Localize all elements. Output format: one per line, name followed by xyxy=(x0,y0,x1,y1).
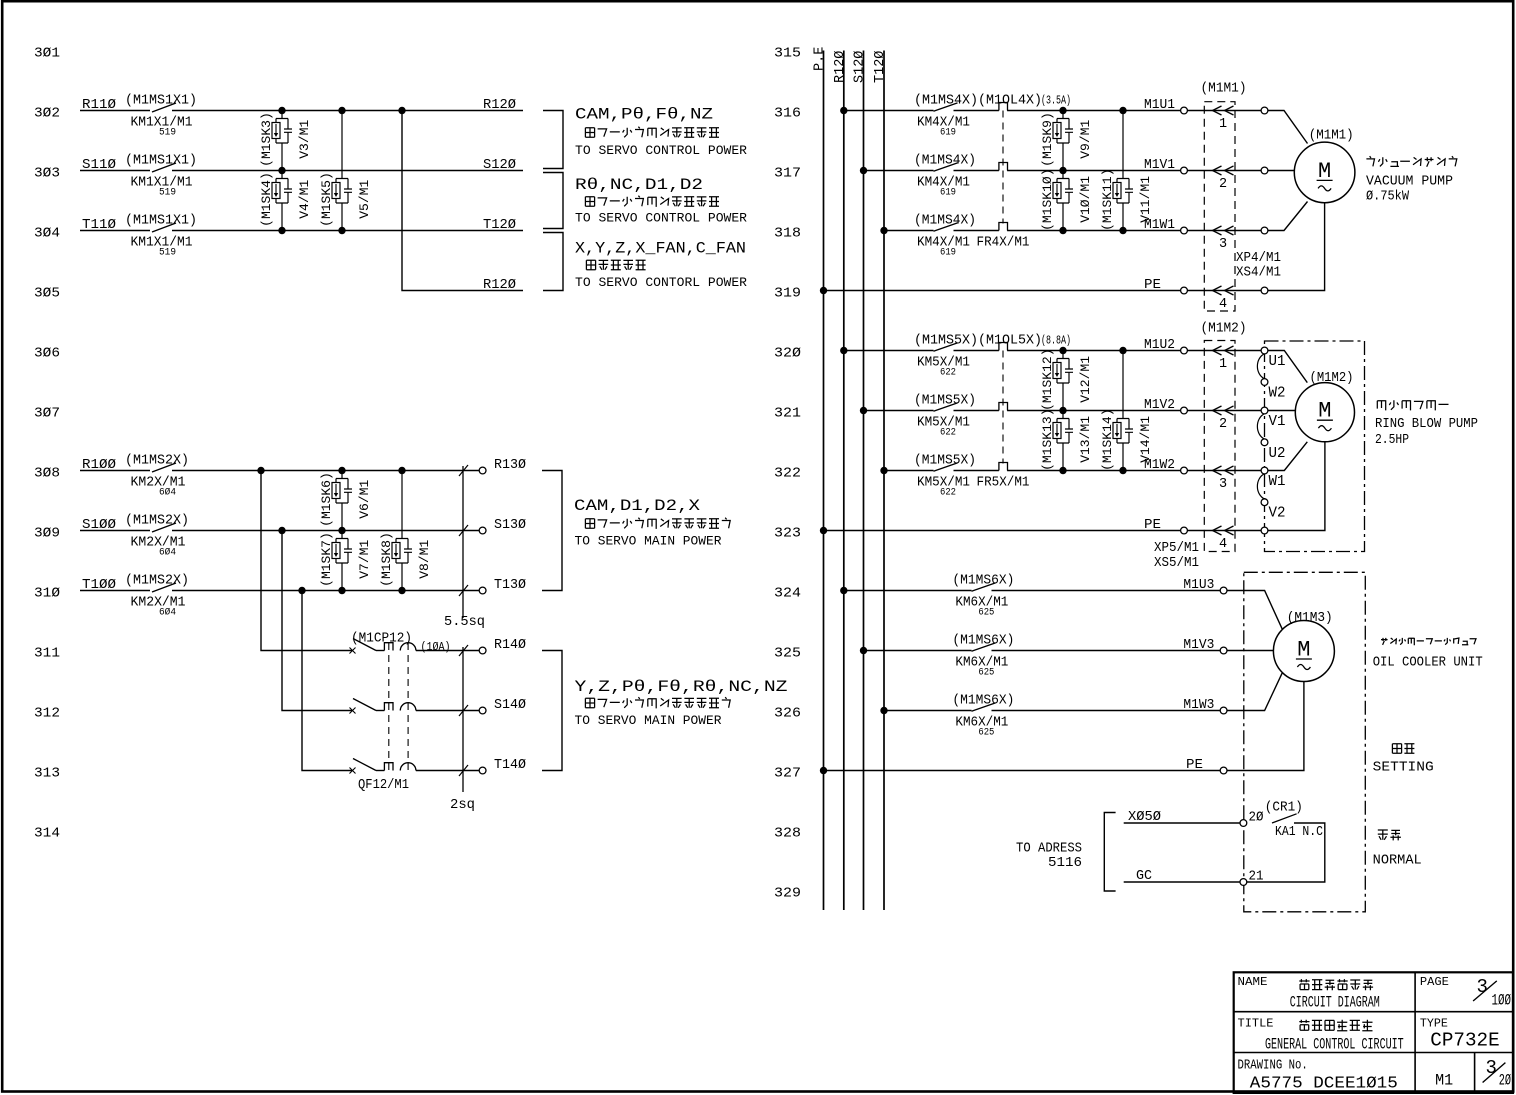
wire X050 row 328 xyxy=(1124,822,1241,824)
svg-text:V5/M1: V5/M1 xyxy=(357,180,372,219)
bus tap dot row 320 xyxy=(840,347,847,354)
svg-text:KM2X/M1: KM2X/M1 xyxy=(131,535,186,550)
svg-text:KM2X/M1: KM2X/M1 xyxy=(131,595,186,610)
surge killer V4/M1 (M1SK4) xyxy=(276,171,288,204)
svg-text:(1ØA): (1ØA) xyxy=(421,640,451,654)
junction dots row 308 xyxy=(257,467,264,474)
contact KM2X/M1 (M1MS2X) row 310 xyxy=(152,583,176,592)
wire row 316 contact to overload xyxy=(954,110,999,112)
cable mark 5.5sq crossing rows 308-310 xyxy=(462,466,464,618)
contact KM5X/M1 (M1MS5X) row 321 xyxy=(934,403,958,411)
svg-text:Y,Z,Pθ,Fθ,Rθ,NC,NZ: Y,Z,Pθ,Fθ,Rθ,NC,NZ xyxy=(575,678,788,696)
svg-text:A5775 DCEE1Ø15: A5775 DCEE1Ø15 xyxy=(1250,1073,1398,1092)
wire row 320 overload to terminal xyxy=(1007,350,1184,352)
svg-text:FR4X/M1: FR4X/M1 xyxy=(977,236,1030,251)
terminal circle M1U1 row 316 xyxy=(1181,107,1188,114)
wire row 324 from bus xyxy=(844,590,972,592)
svg-text:622: 622 xyxy=(940,367,956,379)
bus tap dot row 325 xyxy=(860,647,867,654)
svg-text:1ØØ: 1ØØ xyxy=(1492,992,1512,1010)
wire row 317 from bus xyxy=(864,170,934,172)
connector XP5 pin 2 chevrons xyxy=(1187,410,1261,412)
svg-text:GC: GC xyxy=(1136,869,1152,884)
svg-text:CAM,Pθ,Fθ,NZ: CAM,Pθ,Fθ,NZ xyxy=(575,106,713,124)
jp text axis control power xyxy=(586,260,645,270)
svg-text:(M1SK4): (M1SK4) xyxy=(259,172,274,227)
jp text oil cooler unit xyxy=(1381,638,1476,645)
svg-text:V6/M1: V6/M1 xyxy=(357,480,372,519)
circuit breaker QF12/M1 pole 1 row 311 xyxy=(350,648,356,654)
svg-text:5.5sq: 5.5sq xyxy=(444,615,485,630)
svg-text:625: 625 xyxy=(978,667,994,679)
connector XP5/XS5 dashed box xyxy=(1204,341,1235,552)
svg-text:311: 311 xyxy=(34,647,60,662)
contact KM4X/M1 (M1MS4X) row 318 xyxy=(934,223,958,231)
wire S1ØØ row 309 left segment xyxy=(80,530,150,532)
svg-text:6Ø4: 6Ø4 xyxy=(159,607,176,619)
svg-text:2sq: 2sq xyxy=(450,798,475,813)
svg-text:322: 322 xyxy=(774,467,801,482)
svg-text:(M1MS2X): (M1MS2X) xyxy=(125,454,189,469)
svg-text:W2: W2 xyxy=(1269,386,1286,402)
bus line R12Ø xyxy=(843,51,845,911)
svg-text:XØ5Ø: XØ5Ø xyxy=(1128,810,1161,825)
svg-text:R12Ø: R12Ø xyxy=(483,278,516,293)
svg-text:317: 317 xyxy=(774,167,801,182)
svg-text:3: 3 xyxy=(1219,477,1227,492)
terminal S14Ø xyxy=(479,707,486,714)
motor M1M2 ring blow pump xyxy=(1295,383,1354,442)
wire tap row302 to row305 (R120 feed) xyxy=(402,111,523,291)
terminal 20 xyxy=(1240,820,1247,827)
svg-text:V11/M1: V11/M1 xyxy=(1138,176,1153,223)
overload element (M1OL5X) row 321 xyxy=(999,403,1008,411)
svg-text:TITLE: TITLE xyxy=(1238,1017,1274,1031)
surge killer V14/M1 (M1SK14) xyxy=(1122,351,1124,411)
wire row 303 right segment xyxy=(172,170,523,172)
bus line P.E xyxy=(823,51,825,911)
svg-text:S1ØØ: S1ØØ xyxy=(82,518,116,533)
svg-text:TO SERVO MAIN POWER: TO SERVO MAIN POWER xyxy=(575,534,722,549)
bracket rows 311-313 xyxy=(542,651,562,771)
svg-text:(M1SK8): (M1SK8) xyxy=(379,532,394,587)
connector XP5 pin 1 chevrons xyxy=(1187,350,1261,352)
contact KM6X/M1 (M1MS6X) row 324 xyxy=(972,583,996,591)
svg-text:QF12/M1: QF12/M1 xyxy=(358,778,409,793)
surge killer V6/M1 (M1SK6) xyxy=(336,471,348,504)
wire KA1 to terminal 21 loop xyxy=(1247,823,1325,882)
svg-text:315: 315 xyxy=(774,47,801,62)
svg-text:2.5HP: 2.5HP xyxy=(1375,433,1409,448)
wire row 309 to terminal xyxy=(172,530,479,532)
svg-text:SETTING: SETTING xyxy=(1373,761,1434,776)
breaker linkage dashed lines xyxy=(388,643,390,771)
svg-text:TO SERVO MAIN POWER: TO SERVO MAIN POWER xyxy=(575,713,722,728)
svg-text:PE: PE xyxy=(1144,278,1161,293)
svg-text:U2: U2 xyxy=(1269,446,1286,462)
terminal R13Ø xyxy=(479,467,486,474)
svg-text:328: 328 xyxy=(774,827,801,842)
svg-text:R11Ø: R11Ø xyxy=(82,98,116,113)
overload element (M1OL5X) row 320 xyxy=(999,343,1008,351)
svg-text:(M1SK3): (M1SK3) xyxy=(259,112,274,167)
wire R1ØØ row 308 left segment xyxy=(80,470,150,472)
svg-text:XP5/M1: XP5/M1 xyxy=(1154,541,1199,556)
jp text servo amp control power 2 xyxy=(585,196,719,207)
junction dots row 310 xyxy=(298,587,305,594)
wire row 304 right segment xyxy=(172,230,523,232)
svg-text:S13Ø: S13Ø xyxy=(494,518,526,533)
motor M1M2 PE terminal xyxy=(1261,527,1268,534)
contact KM5X/M1 (M1MS5X) row 322 xyxy=(934,463,958,471)
svg-text:3Ø1: 3Ø1 xyxy=(34,47,60,62)
jp text servo amp main power 2 xyxy=(585,697,730,708)
svg-text:U1: U1 xyxy=(1269,354,1286,370)
terminal circle M1U3 row 324 xyxy=(1220,587,1227,594)
svg-text:TO SERVO CONTROL POWER: TO SERVO CONTROL POWER xyxy=(575,211,747,226)
svg-text:(M1CP12): (M1CP12) xyxy=(351,632,412,647)
junction dot row 303 xyxy=(278,167,285,174)
svg-text:519: 519 xyxy=(159,247,176,259)
svg-text:622: 622 xyxy=(940,487,956,499)
svg-text:W1: W1 xyxy=(1269,474,1286,490)
jp text servo amp main power 1 xyxy=(585,518,730,529)
PE wire row 323 xyxy=(820,527,827,534)
wire row 322 contact to overload xyxy=(954,470,999,472)
contact KM1X1/M1 (M1MS1X1) row 303 xyxy=(152,163,176,172)
svg-text:(M1MS2X): (M1MS2X) xyxy=(125,574,189,589)
motor M1M2 enclosure dash-dot box xyxy=(1265,341,1365,552)
svg-text:325: 325 xyxy=(774,647,801,662)
svg-text:RING BLOW PUMP: RING BLOW PUMP xyxy=(1375,417,1478,432)
connector pin 2 chevrons xyxy=(1187,170,1261,172)
connector pin 2 right terminal xyxy=(1261,167,1268,174)
svg-text:319: 319 xyxy=(774,287,801,302)
svg-text:2: 2 xyxy=(1219,417,1227,432)
svg-text:(M1SK6): (M1SK6) xyxy=(319,472,334,527)
wire row 322 overload to terminal xyxy=(1007,470,1184,472)
overload linkage dashed line (M1OL4X) xyxy=(1002,111,1004,224)
junction dots row 309 xyxy=(278,527,285,534)
bus tap dot row 326 xyxy=(880,707,887,714)
surge killer V10/M1 (M1SK10) xyxy=(1057,171,1069,204)
motor M1M3 oil cooler xyxy=(1273,621,1334,682)
svg-text:(M1SK12): (M1SK12) xyxy=(1040,348,1055,410)
wire GC row 329 xyxy=(1124,881,1241,883)
overload element (M1OL4X) row 316 xyxy=(999,103,1008,111)
title block frame xyxy=(1234,972,1513,1093)
wire row 326 to terminal xyxy=(992,710,1224,712)
svg-text:314: 314 xyxy=(34,827,60,842)
svg-text:T13Ø: T13Ø xyxy=(494,578,526,593)
wire row 322 from bus xyxy=(884,470,934,472)
svg-text:V9/M1: V9/M1 xyxy=(1078,120,1093,159)
junction dots rows 316-318 surge killers xyxy=(1059,107,1066,114)
bus tap dot row 322 xyxy=(880,467,887,474)
terminal 21 xyxy=(1240,879,1247,886)
overload element (M1OL5X) row 322 xyxy=(999,463,1008,471)
bracket rows 308-310 xyxy=(542,471,562,591)
wire row 324 to terminal xyxy=(992,590,1224,592)
wire row 317 overload to terminal xyxy=(1007,170,1184,172)
svg-text:M1V2: M1V2 xyxy=(1144,398,1175,413)
svg-text:TO SERVO CONTROL POWER: TO SERVO CONTROL POWER xyxy=(575,143,747,158)
svg-text:S14Ø: S14Ø xyxy=(494,698,526,713)
motor M1M2 terminal U2 xyxy=(1261,439,1268,446)
svg-text:(M1MS2X): (M1MS2X) xyxy=(125,514,189,529)
svg-text:TO ADRESS: TO ADRESS xyxy=(1016,842,1082,857)
jp text normal xyxy=(1378,830,1401,840)
bus tap dot row 321 xyxy=(860,407,867,414)
svg-text:T14Ø: T14Ø xyxy=(494,758,526,773)
svg-text:1: 1 xyxy=(1219,357,1227,372)
svg-text:31Ø: 31Ø xyxy=(34,587,60,602)
wire row 321 overload to terminal xyxy=(1007,410,1184,412)
svg-text:V12/M1: V12/M1 xyxy=(1078,356,1093,403)
svg-text:32Ø: 32Ø xyxy=(774,347,801,362)
connector XP5 pin 4 chevrons xyxy=(1187,530,1261,532)
terminal circle M1W2 row 322 xyxy=(1181,467,1188,474)
svg-text:M1: M1 xyxy=(1435,1071,1453,1089)
svg-text:VACUUM PUMP: VACUUM PUMP xyxy=(1366,175,1453,190)
svg-text:3Ø3: 3Ø3 xyxy=(34,167,60,182)
surge killer V12/M1 (M1SK12) xyxy=(1057,351,1069,384)
svg-text:318: 318 xyxy=(774,227,801,242)
svg-text:V13/M1: V13/M1 xyxy=(1078,416,1093,463)
bus tap dot row 316 xyxy=(840,107,847,114)
circuit breaker QF12/M1 pole 2 row 312 xyxy=(350,708,356,714)
svg-text:V14/M1: V14/M1 xyxy=(1138,416,1153,463)
svg-text:2: 2 xyxy=(1219,177,1227,192)
svg-text:4: 4 xyxy=(1219,297,1227,312)
terminal T14Ø xyxy=(479,767,486,774)
jp text ring blow xyxy=(1377,400,1448,410)
svg-text:S12Ø: S12Ø xyxy=(483,158,516,173)
oil cooler unit enclosure dash-dot box xyxy=(1244,572,1366,912)
svg-text:KA1 N.C: KA1 N.C xyxy=(1275,825,1323,840)
terminal circle M1W1 row 318 xyxy=(1181,227,1188,234)
svg-text:3Ø9: 3Ø9 xyxy=(34,527,60,542)
connector pin 1 right terminal xyxy=(1261,107,1268,114)
svg-text:KM2X/M1: KM2X/M1 xyxy=(131,475,186,490)
wire S11Ø row 303 left segment xyxy=(80,170,150,172)
svg-text:V4/M1: V4/M1 xyxy=(297,180,312,219)
terminal R14Ø xyxy=(479,647,486,654)
terminal circle PE row 319 xyxy=(1181,287,1188,294)
svg-text:(M1MS4X): (M1MS4X) xyxy=(914,214,976,229)
svg-text:(M1MS6X): (M1MS6X) xyxy=(952,574,1014,589)
svg-text:(M1M3): (M1M3) xyxy=(1287,611,1333,626)
svg-text:3Ø8: 3Ø8 xyxy=(34,467,60,482)
junction dots rows 320-322 surge killers xyxy=(1059,347,1066,354)
svg-text:R1ØØ: R1ØØ xyxy=(82,458,116,473)
svg-text:327: 327 xyxy=(774,767,801,782)
motor M1M2 wires to motor xyxy=(1268,351,1308,383)
svg-text:625: 625 xyxy=(978,727,994,739)
svg-text:M1V3: M1V3 xyxy=(1183,638,1214,653)
svg-text:324: 324 xyxy=(774,587,801,602)
svg-text:(M1SK7): (M1SK7) xyxy=(319,532,334,587)
svg-text:(M1MS1X1): (M1MS1X1) xyxy=(125,94,197,109)
wire row 318 overload to terminal xyxy=(1007,230,1184,232)
svg-text:V3/M1: V3/M1 xyxy=(297,120,312,159)
contact KM2X/M1 (M1MS2X) row 309 xyxy=(152,523,176,532)
svg-text:(M1SK11): (M1SK11) xyxy=(1100,168,1115,230)
svg-text:519: 519 xyxy=(159,127,176,139)
svg-text:PE: PE xyxy=(1144,518,1161,533)
svg-text:(M1SK1Ø): (M1SK1Ø) xyxy=(1040,168,1055,230)
svg-text:M1U3: M1U3 xyxy=(1183,578,1214,593)
contact KM4X/M1 (M1MS4X) row 317 xyxy=(934,163,958,171)
terminal circle M1U2 row 320 xyxy=(1181,347,1188,354)
svg-text:P.E: P.E xyxy=(813,47,828,71)
svg-text:625: 625 xyxy=(978,607,994,619)
svg-text:(CR1): (CR1) xyxy=(1265,801,1303,816)
junction dots row 302 xyxy=(278,107,285,114)
svg-text:R13Ø: R13Ø xyxy=(494,458,526,473)
jp text setting xyxy=(1392,744,1414,754)
connector XP4/XS4 dashed box xyxy=(1204,102,1235,311)
svg-text:3Ø5: 3Ø5 xyxy=(34,287,60,302)
connector XP5 pin 3 chevrons xyxy=(1187,470,1261,472)
svg-text:(M1M1): (M1M1) xyxy=(1309,129,1354,144)
svg-text:R12Ø: R12Ø xyxy=(833,51,848,83)
bus tap dot row 318 xyxy=(880,227,887,234)
terminal circle M1W3 row 326 xyxy=(1220,707,1227,714)
svg-text:619: 619 xyxy=(940,127,956,139)
jp text vacuum pump xyxy=(1366,156,1456,167)
svg-text:PE: PE xyxy=(1186,758,1203,773)
terminal circle M1V2 row 321 xyxy=(1181,407,1188,414)
svg-text:6Ø4: 6Ø4 xyxy=(159,487,176,499)
contact KM1X1/M1 (M1MS1X1) row 304 xyxy=(152,223,176,232)
motor M1M2 terminal U1 xyxy=(1261,347,1268,354)
surge killer V9/M1 (M1SK9) xyxy=(1057,111,1069,144)
svg-text:V1Ø/M1: V1Ø/M1 xyxy=(1078,176,1093,223)
connector pin 1 chevrons xyxy=(1187,110,1261,112)
svg-text:(M1SK9): (M1SK9) xyxy=(1040,112,1055,167)
contact KM1X1/M1 (M1MS1X1) row 302 xyxy=(152,103,176,112)
surge killer V7/M1 (M1SK7) xyxy=(336,531,348,564)
bracket rows 302-303 xyxy=(543,111,563,169)
svg-text:(M1MS4X)(M1OL4X): (M1MS4X)(M1OL4X) xyxy=(914,94,1042,109)
svg-text:V8/M1: V8/M1 xyxy=(417,540,432,579)
svg-text:326: 326 xyxy=(774,707,801,722)
svg-text:OIL COOLER UNIT: OIL COOLER UNIT xyxy=(1373,656,1483,671)
svg-text:321: 321 xyxy=(774,407,801,422)
wire tap row310 down to row313 xyxy=(302,591,352,771)
svg-text:V2: V2 xyxy=(1269,506,1286,522)
svg-text:(M1MS1X1): (M1MS1X1) xyxy=(125,154,197,169)
connector pin 4 chevrons xyxy=(1187,290,1261,292)
svg-text:V1: V1 xyxy=(1269,414,1286,430)
svg-text:(M1MS4X): (M1MS4X) xyxy=(914,154,976,169)
contact KM4X/M1 (M1MS4X) row 316 xyxy=(934,103,958,111)
wire row 302 right segment xyxy=(172,110,523,112)
svg-text:(M1MS1X1): (M1MS1X1) xyxy=(125,214,197,229)
svg-text:3Ø2: 3Ø2 xyxy=(34,107,60,122)
svg-text:2Ø: 2Ø xyxy=(1499,1071,1512,1089)
svg-text:Rθ,NC,D1,D2: Rθ,NC,D1,D2 xyxy=(575,176,703,194)
wire tap row309 down to row312 xyxy=(282,531,352,711)
overload element (M1OL4X) row 318 xyxy=(999,223,1008,231)
PE wire row 319 xyxy=(820,287,827,294)
svg-text:NAME: NAME xyxy=(1238,975,1268,989)
jp text servo amp control power 1 xyxy=(585,127,719,138)
terminal circle M1V1 row 317 xyxy=(1181,167,1188,174)
jp text general control circuit xyxy=(1299,1020,1372,1031)
bus line S12Ø xyxy=(863,51,865,911)
svg-text:S12Ø: S12Ø xyxy=(853,51,868,83)
contact KM2X/M1 (M1MS2X) row 308 xyxy=(152,463,176,472)
svg-text:XS4/M1: XS4/M1 xyxy=(1236,266,1281,281)
overload linkage dashed line (M1OL5X) xyxy=(1002,351,1004,464)
contact KM5X/M1 (M1MS5X) row 320 xyxy=(934,343,958,351)
wire row 317 contact to overload xyxy=(954,170,999,172)
svg-text:619: 619 xyxy=(940,187,956,199)
svg-text:V7/M1: V7/M1 xyxy=(357,540,372,579)
bracket rows 304-305 xyxy=(543,233,563,291)
svg-text:(3.5A): (3.5A) xyxy=(1041,95,1071,108)
PE wire row 327 xyxy=(820,767,827,774)
terminal circle PE row 327 xyxy=(1220,767,1227,774)
svg-text:1: 1 xyxy=(1219,117,1227,132)
svg-text:6Ø4: 6Ø4 xyxy=(159,547,176,559)
cable mark 2sq crossing rows 311-313 xyxy=(462,647,464,792)
wire row 321 from bus xyxy=(864,410,934,412)
svg-text:(M1SK13): (M1SK13) xyxy=(1040,408,1055,470)
svg-text:(M1MS5X): (M1MS5X) xyxy=(914,394,976,409)
wire R11Ø row 302 left segment xyxy=(80,110,150,112)
bracket rows 303-304 xyxy=(543,173,563,229)
connector pin 4 right terminal xyxy=(1261,287,1268,294)
svg-text:T11Ø: T11Ø xyxy=(82,218,116,233)
svg-text:5116: 5116 xyxy=(1048,856,1082,871)
bus tap dot row 317 xyxy=(860,167,867,174)
svg-text:312: 312 xyxy=(34,707,60,722)
svg-text:619: 619 xyxy=(940,247,956,259)
wire row 326 from bus xyxy=(884,710,972,712)
svg-text:(M1SK14): (M1SK14) xyxy=(1100,408,1115,470)
svg-text:R12Ø: R12Ø xyxy=(483,98,516,113)
circuit breaker QF12/M1 pole 3 row 313 xyxy=(350,768,356,774)
svg-text:X,Y,Z,X_FAN,C_FAN: X,Y,Z,X_FAN,C_FAN xyxy=(575,240,746,258)
svg-text:622: 622 xyxy=(940,427,956,439)
motor M1M1 vacuum pump xyxy=(1294,142,1355,203)
overload element (M1OL4X) row 317 xyxy=(999,163,1008,171)
wire row 321 contact to overload xyxy=(954,410,999,412)
svg-text:(M1MS5X)(M1OL5X): (M1MS5X)(M1OL5X) xyxy=(914,334,1042,349)
contact KM6X/M1 (M1MS6X) row 325 xyxy=(972,643,996,651)
svg-text:2Ø: 2Ø xyxy=(1249,811,1264,826)
svg-text:3Ø4: 3Ø4 xyxy=(34,227,60,242)
svg-text:(M1M1): (M1M1) xyxy=(1201,82,1247,97)
svg-text:329: 329 xyxy=(774,887,801,902)
svg-text:M1U1: M1U1 xyxy=(1144,98,1175,113)
wire row 325 from bus xyxy=(864,650,972,652)
junction dots row 304 xyxy=(278,227,285,234)
svg-text:3Ø6: 3Ø6 xyxy=(34,347,60,362)
svg-text:GENERAL CONTROL CIRCUIT: GENERAL CONTROL CIRCUIT xyxy=(1265,1035,1404,1053)
svg-text:4: 4 xyxy=(1219,537,1227,552)
terminal circle PE row 323 xyxy=(1181,527,1188,534)
surge killer V5/M1 (M1SK5) xyxy=(341,111,343,171)
svg-text:FR5X/M1: FR5X/M1 xyxy=(977,476,1030,491)
svg-text:323: 323 xyxy=(774,527,801,542)
wire row 310 to terminal xyxy=(172,590,479,592)
svg-text:CIRCUIT DIAGRAM: CIRCUIT DIAGRAM xyxy=(1290,994,1380,1012)
wire row 308 to terminal xyxy=(172,470,479,472)
